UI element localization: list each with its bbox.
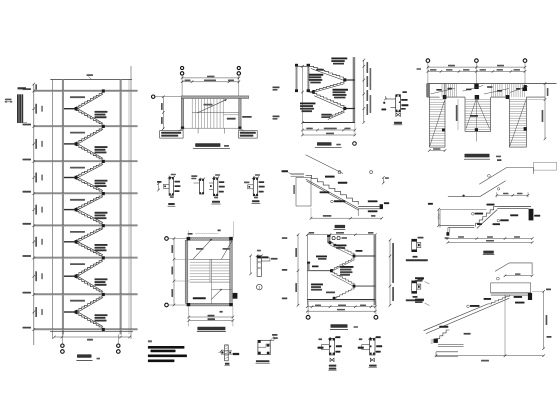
roof plan - right wall hatched (239, 99, 241, 129)
upper section - right dimension line (363, 60, 365, 123)
floor plan LT2 - bottom axis mark (220, 311, 223, 313)
section LT2 - stub bubbles (332, 237, 335, 240)
floor plan LT2 - top leader line (195, 233, 219, 235)
section LT2 - title (331, 324, 348, 327)
section LT2 - top dimension (307, 234, 375, 236)
upper section - left wall inner face hatched (307, 66, 309, 91)
framing plan - corridor arrows (431, 88, 455, 94)
upper section - right wall (353, 57, 355, 122)
upper section - wall top line (295, 65, 310, 67)
floor plan LT2 - down arrow lower (211, 289, 221, 299)
flight section KTB-2 - slab drop edge (357, 209, 359, 216)
framing plan - left small texts (417, 68, 422, 70)
ramp section - dim over landing (505, 275, 532, 277)
framing plan - corridor treads group 3 (505, 84, 507, 98)
roof plan - well second line (224, 114, 239, 116)
beam detail TL-1 (169, 177, 173, 195)
detail XTL1 - label (394, 122, 402, 124)
ramp section - center vertical (504, 294, 506, 355)
flight section KTB-2 - support wall outline (296, 178, 311, 207)
roof plan - left dimension (162, 97, 164, 129)
flight section KTB-2 - top landing slab (291, 173, 304, 175)
detail XTL1 - left flange lines (386, 98, 396, 100)
ramp section - top landing slab (491, 292, 531, 294)
notes heading (148, 340, 152, 342)
framing plan - corridor treads group 2 (491, 84, 493, 98)
floor plan LT2 - bottom wall hatched (187, 303, 232, 306)
beam detail 2TL-1 (213, 178, 217, 196)
left dimension chain - main vertical dimension line (33, 84, 35, 345)
left stair section - floor slabs (34, 90, 138, 92)
left stair section - top roof line (50, 79, 132, 81)
framing plan - middle axis beam blob (474, 84, 478, 89)
upper section - flight 1 (310, 66, 344, 78)
section LT2 - flight 3 (331, 272, 354, 284)
floor plan LT2 - bottom dimensions (189, 316, 233, 318)
flight section KTB-2 - left support label (282, 170, 289, 172)
framing plan - middle flight (464, 97, 466, 131)
section ETB-2 - rebar labels (472, 213, 475, 216)
upper section - landing right 2 (345, 108, 355, 110)
floor plan LT2 - up arrow 2 (221, 241, 232, 260)
section ETB-2 - bottom slab (440, 225, 474, 227)
roof plan - leader box left (160, 131, 183, 139)
floor plan LT2 - right side beam (233, 293, 238, 299)
roof plan - stair treads (191, 99, 193, 129)
detail KTL1 (329, 338, 334, 355)
floor plan LT2 - top axis mark (218, 230, 221, 232)
flight section KTB-2 - slab labels (368, 200, 378, 202)
roof plan - bottom edge line (181, 127, 241, 129)
flight section KTB-2 - leader dots (338, 171, 341, 174)
roof plan - leader box right (239, 131, 258, 139)
roof plan - leader stubs (197, 128, 199, 133)
left stair section - floor beams at stair well (102, 89, 105, 92)
section ETB-2 - leader dot small (497, 188, 499, 190)
framing plan - dimension row 1 (428, 66, 525, 68)
detail GL-2 body (412, 281, 417, 294)
floor plan LT2 - treads upper half (190, 258, 210, 260)
ramp section - bottom left steps detail (437, 330, 450, 342)
framing plan - right flight (508, 97, 510, 147)
section LT2 - landing left (307, 270, 331, 272)
section LT2 - flight 2 (331, 258, 354, 270)
detail XTL1 - bowtie symbol (396, 113, 400, 117)
floor plan LT2 - axis bubbles left (165, 237, 169, 241)
notes line 2 (148, 355, 187, 358)
section LT2 - bottom dims (307, 306, 375, 308)
framing plan - title (465, 154, 490, 158)
left stair section LT-1 - grid line left (52, 80, 54, 340)
upper section - far left leader texts (273, 87, 280, 89)
detail XTL1 - section body (396, 95, 401, 112)
flight section KTB-2 - title (335, 225, 346, 228)
framing plan - corridor treads group 1 (441, 84, 443, 98)
section ETB-2 - bottom dim 2 (448, 241, 532, 243)
section ETB-2 - lower level top line (440, 208, 486, 210)
beam detail TL-2 (200, 179, 204, 194)
roof plan - top dimension line segments (182, 81, 239, 83)
notes line 3 (148, 360, 175, 363)
framing plan - axis bubbles (426, 59, 430, 63)
ramp section - rebar labels (467, 305, 470, 308)
framing plan - dimension row 2 (428, 70, 525, 72)
upper section - left wall outer face (296, 66, 298, 90)
framing plan - corridor beams (443, 95, 447, 99)
section LT2 - axis bubbles bottom (307, 301, 309, 314)
notes line 1b (151, 350, 176, 353)
section LT2 - landing right 1 (354, 255, 375, 257)
section ETB-2 - flight diagonal (476, 206, 498, 226)
floor plan LT2 - top left tiny text (188, 233, 193, 235)
section ETB-2 - upper right box (534, 162, 557, 170)
detail KTL2 (370, 338, 375, 355)
upper section - bottom dimension lines (303, 129, 355, 131)
ramp section - left labels (415, 277, 424, 279)
detail ML - L section (258, 340, 270, 354)
section LT2 - left dim (297, 235, 299, 306)
detail GL-2 label (413, 296, 418, 298)
framing plan - inter-flight dim (457, 99, 459, 130)
section ETB-2 - right end beam (529, 209, 534, 221)
floor plan LT2 - corner beams (187, 237, 191, 240)
floor plan LT2 - slab text (193, 297, 206, 299)
upper section - flight 3 (313, 94, 344, 107)
roof plan - mid rail line (192, 112, 239, 114)
section LT2 - flight 4 (334, 288, 354, 298)
floor plan LT2 - left wall hatched (185, 240, 188, 303)
notes line 1 (148, 346, 185, 349)
floor plan LT2 - top wall hatched (187, 238, 232, 241)
floor plan LT2 - landing line (190, 258, 230, 260)
left stair section - right wall (120, 80, 122, 335)
left stair section - roof level mark (89, 77, 92, 80)
section ETB-2 - left wall edge (439, 209, 441, 227)
left stair section - axis bubbles (61, 335, 63, 344)
detail ML - label (256, 360, 270, 362)
roof plan - title (195, 143, 220, 147)
left dimension chain - top elevation label (18, 87, 27, 89)
framing plan - bottom edge of corridor (427, 96, 440, 98)
section ETB-2 - second break line (448, 181, 506, 197)
ramp section - right dim (543, 291, 545, 348)
upper section - wall axis line (302, 66, 304, 122)
detail XL - label (225, 363, 230, 365)
ramp section - landing upper outline box (491, 283, 531, 293)
detail GL-1 body (412, 239, 417, 252)
section LT2 - flight labels (334, 245, 347, 247)
floor plan LT2 - up arrow 1 (193, 239, 212, 259)
section LT2 - top wall stub (328, 236, 330, 243)
floor plan LT2 - central stringer (209, 259, 211, 282)
detail XL - cross section (225, 345, 229, 361)
section ETB-2 - left dim (438, 209, 440, 225)
roof plan - axis bubble A left (152, 95, 155, 98)
section LT2 - flight 1 (330, 243, 354, 255)
flight section KTB-2 - section cut leader (306, 155, 344, 174)
section LT2 - ground floor (307, 299, 375, 301)
floor plan LT2 - node detail 1 (257, 256, 261, 277)
framing plan - corridor left wall end (426, 84, 429, 98)
ramp section - lower slabs (438, 344, 464, 346)
left dimension chain - vertical note text block (17, 94, 19, 123)
framing plan - left flight (428, 84, 430, 148)
left stair section - bottom slab edge (50, 331, 133, 333)
ramp section - main flight diagonal (424, 304, 488, 331)
left stair section - inner right line (128, 80, 130, 335)
floor plan LT2 - right wall extension up (233, 222, 235, 238)
upper section - axis bubble (353, 142, 357, 146)
section ETB-2 - top landing slab (497, 205, 531, 207)
roof plan - up arrow (197, 100, 226, 113)
section ETB-2 - below slab beam (447, 228, 449, 233)
floor plan LT2 - lower mid line (211, 288, 232, 290)
framing plan - corridor labels (436, 89, 442, 91)
roof plan - axis bubbles top (181, 66, 184, 69)
roof plan - side note right wall (242, 116, 252, 118)
section ETB-2 - upper break line (479, 168, 533, 185)
section LT2 - right wall (374, 235, 376, 306)
floor plan LT2 - left dimension (173, 239, 175, 306)
section LT2 - left wall stub at landing (308, 263, 310, 271)
flight section KTB-2 - bottom dim (311, 217, 382, 219)
floor plan LT2 - right wall hatched (230, 240, 233, 303)
section ETB-2 - dim over slab (497, 194, 528, 196)
framing plan - right dimension line (544, 84, 546, 139)
floor plan LT2 - node detail 1 bubble (257, 284, 263, 290)
roof plan - left wall hatched (181, 99, 183, 129)
framing plan - top edge line (427, 83, 557, 85)
flight section KTB-2 - stepped flight (306, 175, 359, 204)
beam detail 2TL-3 (253, 178, 257, 196)
upper section - flight 4 (327, 110, 344, 118)
floor plan LT2 - title (197, 327, 225, 331)
detail GL-1 label (413, 256, 418, 258)
roof plan - top wall hatched (181, 96, 249, 99)
section LT2 - left boundary (306, 235, 308, 306)
upper section - flight text labels (331, 58, 347, 60)
ramp section - upper break line (495, 263, 532, 274)
roof plan - top dimension line overall (182, 77, 239, 79)
left stair section - grid line right (130, 66, 132, 339)
detail XTL1 - left dim (383, 102, 385, 104)
upper section - landing left (309, 91, 313, 93)
left stair section - title LT-1 (77, 354, 92, 357)
section ETB-2 - title (483, 251, 494, 254)
svg-text:1: 1 (258, 286, 260, 290)
upper section - flight 2 (313, 82, 344, 91)
left stair section - half landings and flights (64, 108, 76, 110)
detail XTL1 - texts (402, 91, 407, 93)
upper section - title (317, 142, 332, 145)
floor plan LT2 - treads lower half (211, 258, 229, 260)
roof plan - well text (227, 118, 236, 120)
section ETB-2 - bottom dim 1 (448, 238, 532, 240)
left stair section - bottom dimension (54, 336, 129, 338)
section LT2 - right dim with rotated text (389, 240, 391, 305)
left dimension chain - ticks and storey texts (33, 83, 36, 86)
left dimension chain - level arrow symbol (5, 101, 13, 103)
flight section KTB-2 - rebar labels (325, 176, 335, 178)
framing plan - left flight bottom dim (429, 150, 445, 152)
flight section KTB-2 - right dim (382, 178, 384, 184)
upper section - ground floor line (303, 122, 355, 124)
ramp section - bottom dim (436, 355, 544, 357)
upper section - landing right 1 (345, 79, 355, 81)
left stair section - left wall (62, 80, 64, 335)
roof plan - wall end beams (181, 127, 184, 130)
section LT2 - landing right 2 (354, 285, 375, 287)
flight section KTB-2 - bottom slab (358, 205, 383, 207)
